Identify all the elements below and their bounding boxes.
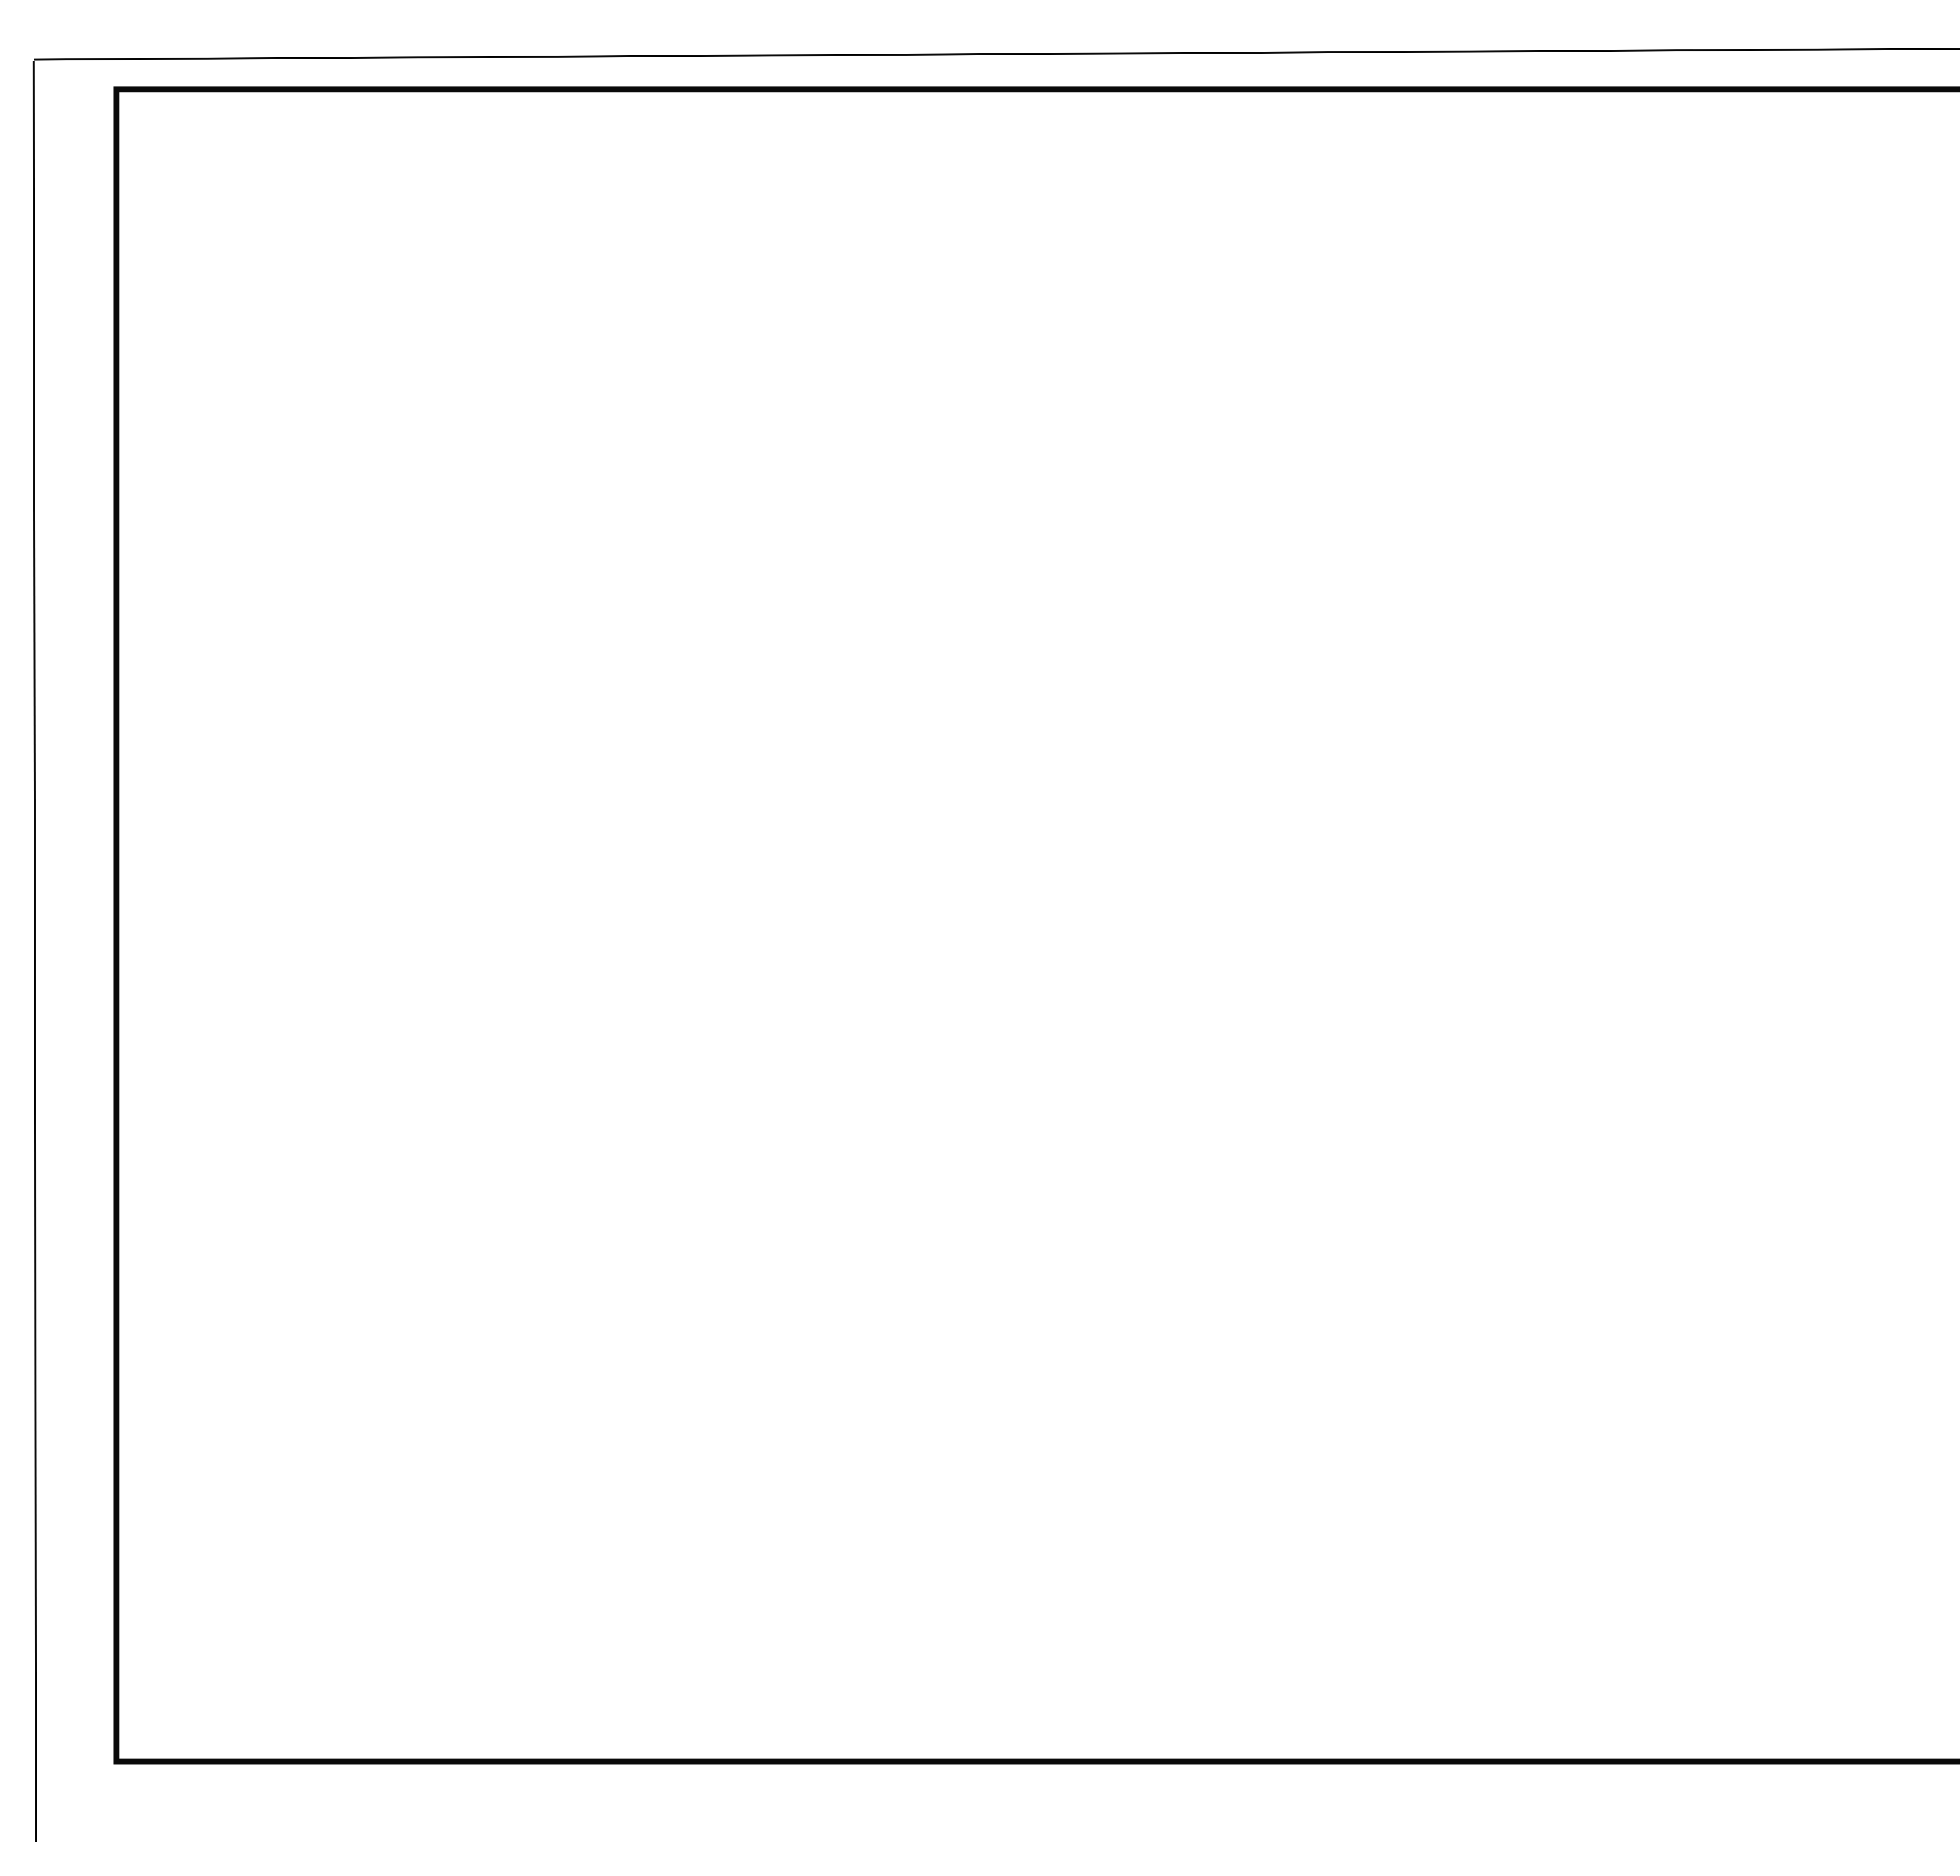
scan edge thin line top <box>34 45 1960 60</box>
scan edge thin line left <box>34 61 36 1842</box>
